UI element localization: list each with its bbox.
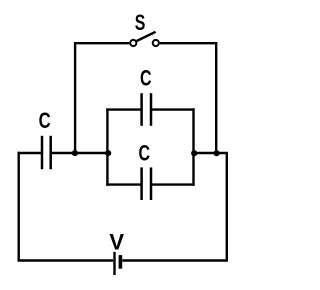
battery V	[115, 252, 121, 275]
node A junction dot	[72, 150, 78, 156]
wire: box bottom branch right of capacitor C3	[152, 183, 195, 185]
wire: box top branch left of capacitor C2	[106, 108, 140, 110]
wire: top-left branch from switch left terminal to left vertical down to node A	[75, 43, 129, 153]
wire: left node segment from corner to capacitor C1 left plate	[18, 152, 42, 154]
wire: parallel box left edge	[106, 108, 108, 185]
wire: node A segment from C1 right plate through junction to box left edge	[52, 152, 108, 154]
capacitor C1 (left)	[42, 136, 51, 169]
wire: left outer loop from node line down and along bottom to battery left plate	[19, 152, 114, 261]
junction dot at box right edge	[191, 150, 197, 156]
svg-text:C: C	[39, 108, 51, 133]
svg-text:C: C	[140, 65, 152, 90]
wire: node B segment from box right edge to right outer corner down to battery right plate	[122, 153, 227, 261]
wire: box bottom branch left of capacitor C3	[106, 183, 140, 185]
svg-text:V: V	[109, 230, 124, 255]
node B junction dot	[214, 150, 220, 156]
wire: top-right from switch right terminal to right vertical down to node B	[160, 43, 216, 153]
svg-text:S: S	[135, 10, 146, 35]
wire: parallel box right edge	[192, 108, 194, 185]
svg-text:C: C	[139, 141, 151, 166]
capacitor C2 (top of parallel pair)	[142, 93, 151, 126]
switch S	[130, 32, 159, 46]
capacitor C3 (bottom of parallel pair)	[142, 167, 151, 200]
wire: box top branch right of capacitor C2	[152, 108, 195, 110]
junction dot at box left edge	[105, 150, 111, 156]
